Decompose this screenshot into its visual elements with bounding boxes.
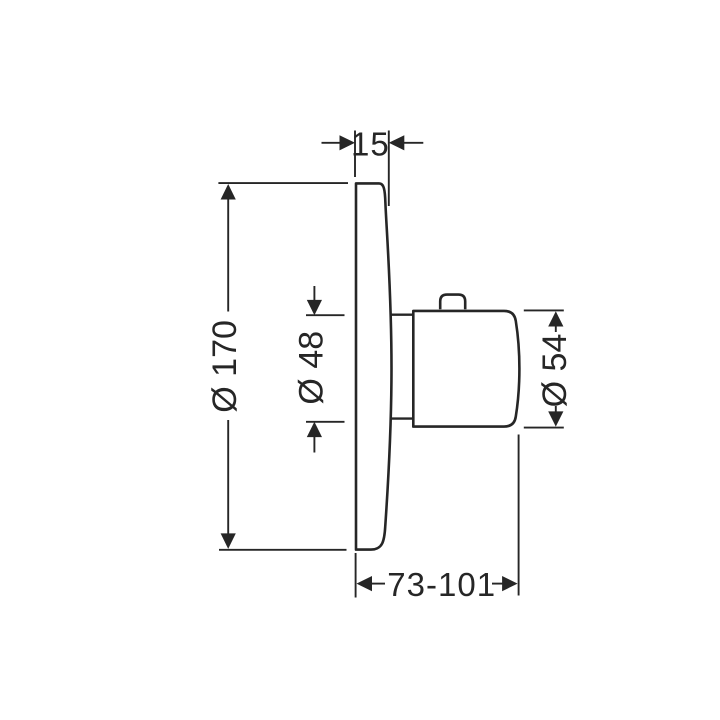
svg-text:15: 15 xyxy=(351,125,390,162)
svg-text:Ø 170: Ø 170 xyxy=(206,320,244,413)
svg-text:Ø 54: Ø 54 xyxy=(536,334,574,408)
svg-text:Ø 48: Ø 48 xyxy=(292,331,330,405)
svg-text:73-101: 73-101 xyxy=(387,566,496,603)
